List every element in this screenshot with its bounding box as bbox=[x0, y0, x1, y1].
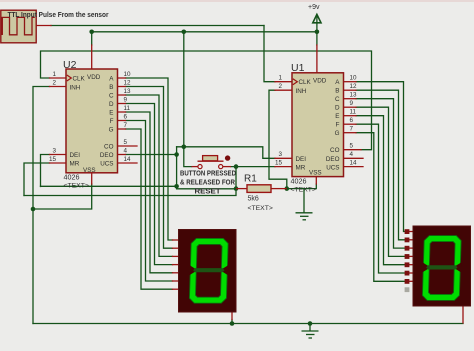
top window edge line bbox=[0, 0, 474, 2]
pulse waveform left accent block bbox=[1, 17, 3, 35]
svg-text:D: D bbox=[109, 101, 114, 108]
wire: U1 E to right display pin 5 bbox=[356, 116, 405, 265]
pin 4 stub U1 DEO bbox=[344, 157, 364, 159]
svg-text:VSS: VSS bbox=[309, 170, 322, 177]
svg-text:11: 11 bbox=[124, 105, 131, 112]
wire: U2 INH to ground left vertical bbox=[33, 87, 50, 324]
node: U2 DEO link junction bbox=[174, 152, 179, 157]
svg-text:10: 10 bbox=[124, 71, 132, 78]
node: reset line DEO junction bbox=[174, 184, 179, 189]
svg-text:DEO: DEO bbox=[100, 152, 114, 159]
svg-text:CLK: CLK bbox=[299, 79, 312, 86]
svg-text:<TEXT>: <TEXT> bbox=[291, 186, 316, 193]
svg-text:CO: CO bbox=[330, 147, 340, 154]
svg-text:VDD: VDD bbox=[87, 74, 101, 81]
svg-text:<TEXT>: <TEXT> bbox=[248, 205, 273, 212]
resistor R1 bbox=[236, 185, 287, 193]
svg-text:UCS: UCS bbox=[100, 161, 113, 168]
wire: U1 F to right display pin 6 bbox=[356, 124, 405, 273]
7-segment display DS2 (right) body bbox=[413, 226, 471, 306]
svg-text:3: 3 bbox=[278, 151, 282, 158]
svg-text:2: 2 bbox=[278, 83, 282, 90]
pin 10 stub U2 A bbox=[118, 77, 126, 79]
segment G off bbox=[426, 265, 458, 269]
wire: carry U1 CO to U2 CLK long loop bbox=[41, 51, 372, 150]
pin 7 stub U1 G bbox=[344, 132, 357, 134]
pin 5 stub U1 CO bbox=[344, 149, 362, 151]
node: ground stem junction on bottom bus bbox=[308, 321, 313, 326]
pin 13 stub U1 C bbox=[344, 98, 357, 100]
svg-text:F: F bbox=[336, 122, 340, 129]
R1 right lead bbox=[271, 188, 287, 190]
wire: U2 MR loop down bbox=[24, 163, 50, 196]
ground symbol below U1 bbox=[296, 189, 313, 220]
wire: U1 INH down around to ground node bbox=[269, 90, 287, 188]
svg-text:U2: U2 bbox=[63, 59, 77, 71]
wire: DEO link vertical down to reset line bbox=[177, 147, 236, 189]
svg-text:6: 6 bbox=[124, 114, 128, 121]
wire: U2 A to left display pin 1 bbox=[126, 78, 173, 240]
svg-text:MR: MR bbox=[70, 161, 80, 168]
pin 14 stub U2 UCS bbox=[118, 162, 138, 164]
pin 11 stub U1 E bbox=[344, 115, 357, 117]
U1 pin numbers bbox=[275, 75, 357, 167]
wire: CLK1 vertical drop to U1 bbox=[264, 26, 275, 82]
pin 13 stub U2 C bbox=[118, 94, 126, 96]
wire: +9v drop to U2 VDD bbox=[91, 32, 93, 45]
pin 6 stub U2 F bbox=[118, 120, 126, 122]
svg-text:12: 12 bbox=[350, 83, 358, 90]
svg-text:4026: 4026 bbox=[291, 176, 307, 185]
pin 8 stub U2 VSS bbox=[91, 173, 93, 184]
svg-text:5: 5 bbox=[350, 143, 354, 150]
7-segment display DS1 digit 0 bbox=[189, 238, 229, 303]
right display cathode stub bbox=[462, 306, 464, 323]
svg-text:F: F bbox=[110, 118, 114, 125]
svg-text:2: 2 bbox=[52, 80, 56, 87]
op-amp U2 4026 counter body bbox=[66, 69, 118, 173]
pin 12 stub U1 B bbox=[344, 89, 357, 91]
wire: pulse source output stub bbox=[36, 25, 51, 27]
pin 5 stub U2 CO bbox=[118, 145, 138, 147]
clock chevron U1 pin 1 bbox=[293, 79, 298, 85]
svg-text:+9v: +9v bbox=[308, 4, 320, 11]
node: +9v rail at source bbox=[315, 30, 320, 35]
pulse generator source box bbox=[1, 10, 36, 43]
svg-text:4026: 4026 bbox=[64, 173, 80, 182]
svg-text:D: D bbox=[335, 105, 340, 112]
svg-text:10: 10 bbox=[350, 75, 358, 82]
DS2 pin pads bbox=[405, 229, 410, 284]
left display cathode stub bbox=[231, 312, 233, 320]
wire: DEI supply line to U1 DEI bbox=[177, 147, 275, 159]
node: +9v rail at button branch bbox=[182, 30, 187, 35]
push button reset switch bbox=[192, 155, 232, 168]
wire: U2 DEO to link junction bbox=[126, 154, 177, 156]
svg-text:9: 9 bbox=[350, 100, 354, 107]
pin 7 stub U2 G bbox=[118, 128, 126, 130]
R1 body bbox=[247, 185, 271, 193]
wire: U1 C to right display pin 3 bbox=[356, 99, 405, 248]
ground symbol on bottom bus bbox=[302, 324, 319, 339]
node: +9v rail at U2 VDD bbox=[89, 30, 94, 35]
U1 pin name labels bbox=[296, 78, 341, 177]
svg-text:12: 12 bbox=[124, 80, 132, 87]
svg-text:BUTTON PRESSED: BUTTON PRESSED bbox=[180, 171, 236, 178]
wire: U2 F to left display pin 6 bbox=[126, 121, 173, 282]
wire: U1 D to right display pin 4 bbox=[356, 107, 405, 256]
wire: U1 B to right display pin 2 bbox=[356, 90, 405, 240]
wire: R1 right to ground and U1 VSS bbox=[287, 184, 317, 189]
button cap bbox=[203, 156, 218, 161]
svg-text:RESET: RESET bbox=[195, 188, 222, 195]
svg-text:15: 15 bbox=[49, 156, 57, 163]
node: button right junction bbox=[234, 164, 239, 169]
pin 15 stub U2 MR bbox=[50, 162, 67, 164]
svg-text:11: 11 bbox=[350, 109, 357, 116]
pin 11 stub U2 E bbox=[118, 111, 126, 113]
clock chevron U2 pin 1 bbox=[67, 75, 72, 81]
svg-text:U1: U1 bbox=[291, 62, 305, 74]
power +9v arrow symbol bbox=[313, 14, 321, 22]
wire: U2 B to left display pin 2 bbox=[126, 87, 173, 249]
wire: U2 C to left display pin 3 bbox=[126, 95, 173, 256]
segment G off bbox=[193, 268, 225, 272]
svg-text:7: 7 bbox=[124, 122, 128, 129]
svg-text:E: E bbox=[109, 110, 113, 117]
pin 3 stub U1 DEI bbox=[275, 157, 292, 159]
U2 pin numbers bbox=[49, 71, 131, 163]
svg-text:E: E bbox=[335, 113, 339, 120]
segment tip notch left bbox=[189, 265, 197, 275]
pin 4 stub U2 DEO bbox=[118, 154, 126, 156]
svg-text:R1: R1 bbox=[244, 174, 257, 185]
svg-text:INH: INH bbox=[296, 88, 307, 95]
svg-text:INH: INH bbox=[70, 84, 81, 91]
svg-text:9: 9 bbox=[124, 97, 128, 104]
node: U2 VSS ground junction bbox=[31, 207, 36, 212]
wire: U1 A to right display pin 1 bbox=[356, 82, 405, 232]
node: DEI supply junction bbox=[182, 145, 187, 150]
wire: U2 DEI loop down to reset line bbox=[41, 155, 50, 187]
button actuator bar bbox=[198, 160, 224, 162]
wire: bottom cathode ground bus bbox=[33, 323, 463, 325]
svg-text:DEI: DEI bbox=[70, 152, 81, 159]
svg-text:15: 15 bbox=[275, 160, 283, 167]
wire: reset node to U1 MR bbox=[236, 166, 275, 168]
digit ring segments A B C D E F bbox=[422, 236, 461, 301]
wire: U2 D to left display pin 4 bbox=[126, 104, 173, 265]
wire: +9v stem under arrow bbox=[316, 17, 318, 45]
svg-text:VSS: VSS bbox=[83, 167, 96, 174]
right display pin stubs to pads bbox=[410, 231, 414, 233]
svg-text:14: 14 bbox=[124, 156, 132, 163]
svg-text:1: 1 bbox=[278, 75, 282, 82]
pin 2 stub U2 INH bbox=[50, 86, 67, 88]
svg-text:5k6: 5k6 bbox=[248, 196, 259, 203]
svg-text:4: 4 bbox=[350, 151, 354, 158]
button left contact circle bbox=[198, 165, 202, 169]
svg-text:VDD: VDD bbox=[313, 78, 327, 85]
pin 1 stub U2 CLK bbox=[50, 77, 67, 79]
pin 10 stub U1 A bbox=[344, 81, 357, 83]
wire: U2 E to left display pin 5 bbox=[126, 112, 173, 273]
button left lead bbox=[192, 166, 198, 168]
node: R1 left reset node bbox=[234, 186, 239, 191]
wire: U2 VSS down and left to ground vertical bbox=[33, 184, 92, 209]
svg-text:MR: MR bbox=[296, 164, 306, 171]
svg-text:G: G bbox=[335, 130, 340, 137]
wire: U1 G to right display pin 7 bbox=[356, 133, 405, 282]
segment tip notch right bbox=[220, 265, 228, 275]
svg-text:CLK: CLK bbox=[73, 76, 86, 83]
wire: +9v rail horizontal bbox=[92, 31, 317, 33]
pin 9 stub U1 D bbox=[344, 106, 357, 108]
pin 16 stub U2 VDD bbox=[91, 45, 93, 69]
svg-text:1: 1 bbox=[52, 71, 56, 78]
button right lead bbox=[223, 166, 231, 168]
digit ring segments A B C D E F bbox=[189, 238, 228, 303]
svg-text:13: 13 bbox=[124, 88, 132, 95]
svg-text:CO: CO bbox=[104, 144, 114, 151]
wire: button right to reset node column bbox=[231, 167, 236, 189]
svg-text:6: 6 bbox=[350, 117, 354, 124]
pin 12 stub U2 B bbox=[118, 86, 126, 88]
svg-text:DEI: DEI bbox=[296, 156, 307, 163]
button right contact circle bbox=[219, 165, 223, 169]
svg-text:13: 13 bbox=[350, 92, 358, 99]
svg-text:3: 3 bbox=[52, 148, 56, 155]
wire: MR reset line across, riser to R1 left node bbox=[24, 189, 236, 196]
svg-text:5: 5 bbox=[124, 139, 128, 146]
pin 9 stub U2 D bbox=[118, 103, 126, 105]
node: R1 right ground node bbox=[285, 186, 290, 191]
op-amp U1 4026 counter body bbox=[292, 73, 344, 177]
U2 pin name labels bbox=[70, 74, 115, 174]
svg-text:7: 7 bbox=[350, 126, 354, 133]
DS2 unconnected pad bbox=[405, 287, 410, 292]
wire: +9v drop to button left terminal bbox=[184, 147, 192, 167]
segment tip notch right bbox=[453, 263, 461, 273]
button marker dot bbox=[225, 155, 230, 160]
wire: +9v branch down to button / DEI line bbox=[183, 32, 185, 147]
segment tip notch left bbox=[422, 263, 430, 273]
svg-text:G: G bbox=[109, 127, 114, 134]
wire: left display cathode drop bbox=[231, 320, 233, 324]
pin 1 stub U1 CLK bbox=[275, 81, 292, 83]
node: left display cathode junction bbox=[230, 321, 235, 326]
svg-text:& RELEASED FOR: & RELEASED FOR bbox=[180, 180, 235, 187]
svg-text:<TEXT>: <TEXT> bbox=[64, 183, 89, 190]
wire: pulse output to U1 CLK (net CLK1) horizontal top bbox=[51, 25, 264, 27]
svg-text:UCS: UCS bbox=[326, 164, 339, 171]
svg-text:4: 4 bbox=[124, 148, 128, 155]
wire: U2 G to left display pin 7 bbox=[126, 129, 173, 289]
R1 left lead bbox=[236, 188, 247, 190]
pin 6 stub U1 F bbox=[344, 123, 357, 125]
pin 3 stub U2 DEI bbox=[50, 154, 67, 156]
svg-text:B: B bbox=[335, 88, 339, 95]
7-segment display DS1 (left) body bbox=[179, 230, 237, 313]
left display pin stubs A-G bbox=[173, 239, 180, 241]
pin 8 stub U1 VSS bbox=[315, 176, 317, 184]
pin 15 stub U1 MR bbox=[275, 166, 292, 168]
svg-text:DEO: DEO bbox=[326, 156, 340, 163]
svg-text:B: B bbox=[109, 84, 113, 91]
pin 14 stub U1 UCS bbox=[344, 166, 364, 168]
svg-text:C: C bbox=[109, 93, 114, 100]
pin 16 stub U1 VDD bbox=[316, 45, 318, 72]
svg-text:TTL Input Pulse From the senso: TTL Input Pulse From the sensor bbox=[8, 10, 109, 19]
7-segment display DS2 digit 0 bbox=[422, 236, 462, 301]
svg-text:14: 14 bbox=[350, 160, 358, 167]
svg-text:C: C bbox=[335, 96, 340, 103]
label: button caption bbox=[180, 171, 236, 196]
pulse waveform inside source bbox=[2, 17, 35, 34]
pin 2 stub U1 INH bbox=[275, 89, 292, 91]
wire: reset line DEI row across to R1 left node bbox=[41, 185, 177, 187]
